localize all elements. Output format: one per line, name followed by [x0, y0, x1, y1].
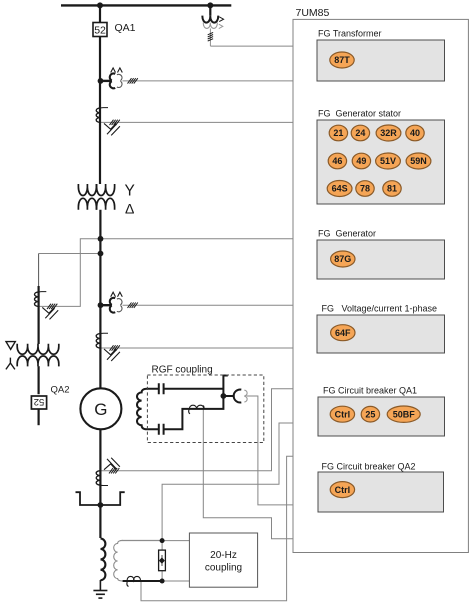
- svg-text:QA1: QA1: [115, 22, 136, 34]
- svg-text:FG Circuit breaker QA1: FG Circuit breaker QA1: [323, 386, 417, 396]
- svg-text:49: 49: [356, 156, 366, 166]
- svg-text:FG Circuit breaker QA2: FG Circuit breaker QA2: [322, 462, 416, 472]
- svg-text:87T: 87T: [334, 55, 350, 65]
- svg-text:51V: 51V: [380, 156, 396, 166]
- svg-text:FG Generator stator: FG Generator stator: [318, 109, 401, 119]
- svg-text:QA2: QA2: [51, 385, 70, 396]
- svg-text:50BF: 50BF: [393, 409, 416, 419]
- svg-text:25: 25: [365, 409, 375, 419]
- svg-text:Ctrl: Ctrl: [335, 485, 351, 495]
- svg-text:FG Voltage/current 1-phase: FG Voltage/current 1-phase: [322, 304, 438, 314]
- svg-text:59N: 59N: [410, 156, 427, 166]
- svg-text:20-Hz: 20-Hz: [210, 550, 237, 561]
- svg-text:7UM85: 7UM85: [296, 7, 330, 19]
- svg-text:52: 52: [34, 396, 45, 407]
- svg-text:RGF coupling: RGF coupling: [152, 365, 213, 376]
- svg-text:78: 78: [360, 184, 370, 194]
- svg-text:87G: 87G: [334, 254, 351, 264]
- svg-text:Δ: Δ: [125, 201, 134, 217]
- svg-text:52: 52: [94, 24, 106, 36]
- svg-text:Y: Y: [125, 183, 135, 200]
- svg-text:40: 40: [410, 128, 420, 138]
- svg-text:FG Generator: FG Generator: [318, 229, 376, 239]
- svg-text:FG Transformer: FG Transformer: [318, 29, 382, 39]
- svg-text:coupling: coupling: [205, 563, 242, 574]
- svg-text:64F: 64F: [335, 328, 351, 338]
- svg-text:32R: 32R: [380, 128, 397, 138]
- svg-text:64S: 64S: [332, 184, 348, 194]
- svg-text:24: 24: [355, 128, 365, 138]
- svg-text:21: 21: [333, 128, 343, 138]
- svg-text:Ctrl: Ctrl: [335, 409, 351, 419]
- svg-text:81: 81: [387, 184, 397, 194]
- svg-text:46: 46: [332, 156, 342, 166]
- svg-text:G: G: [94, 400, 107, 419]
